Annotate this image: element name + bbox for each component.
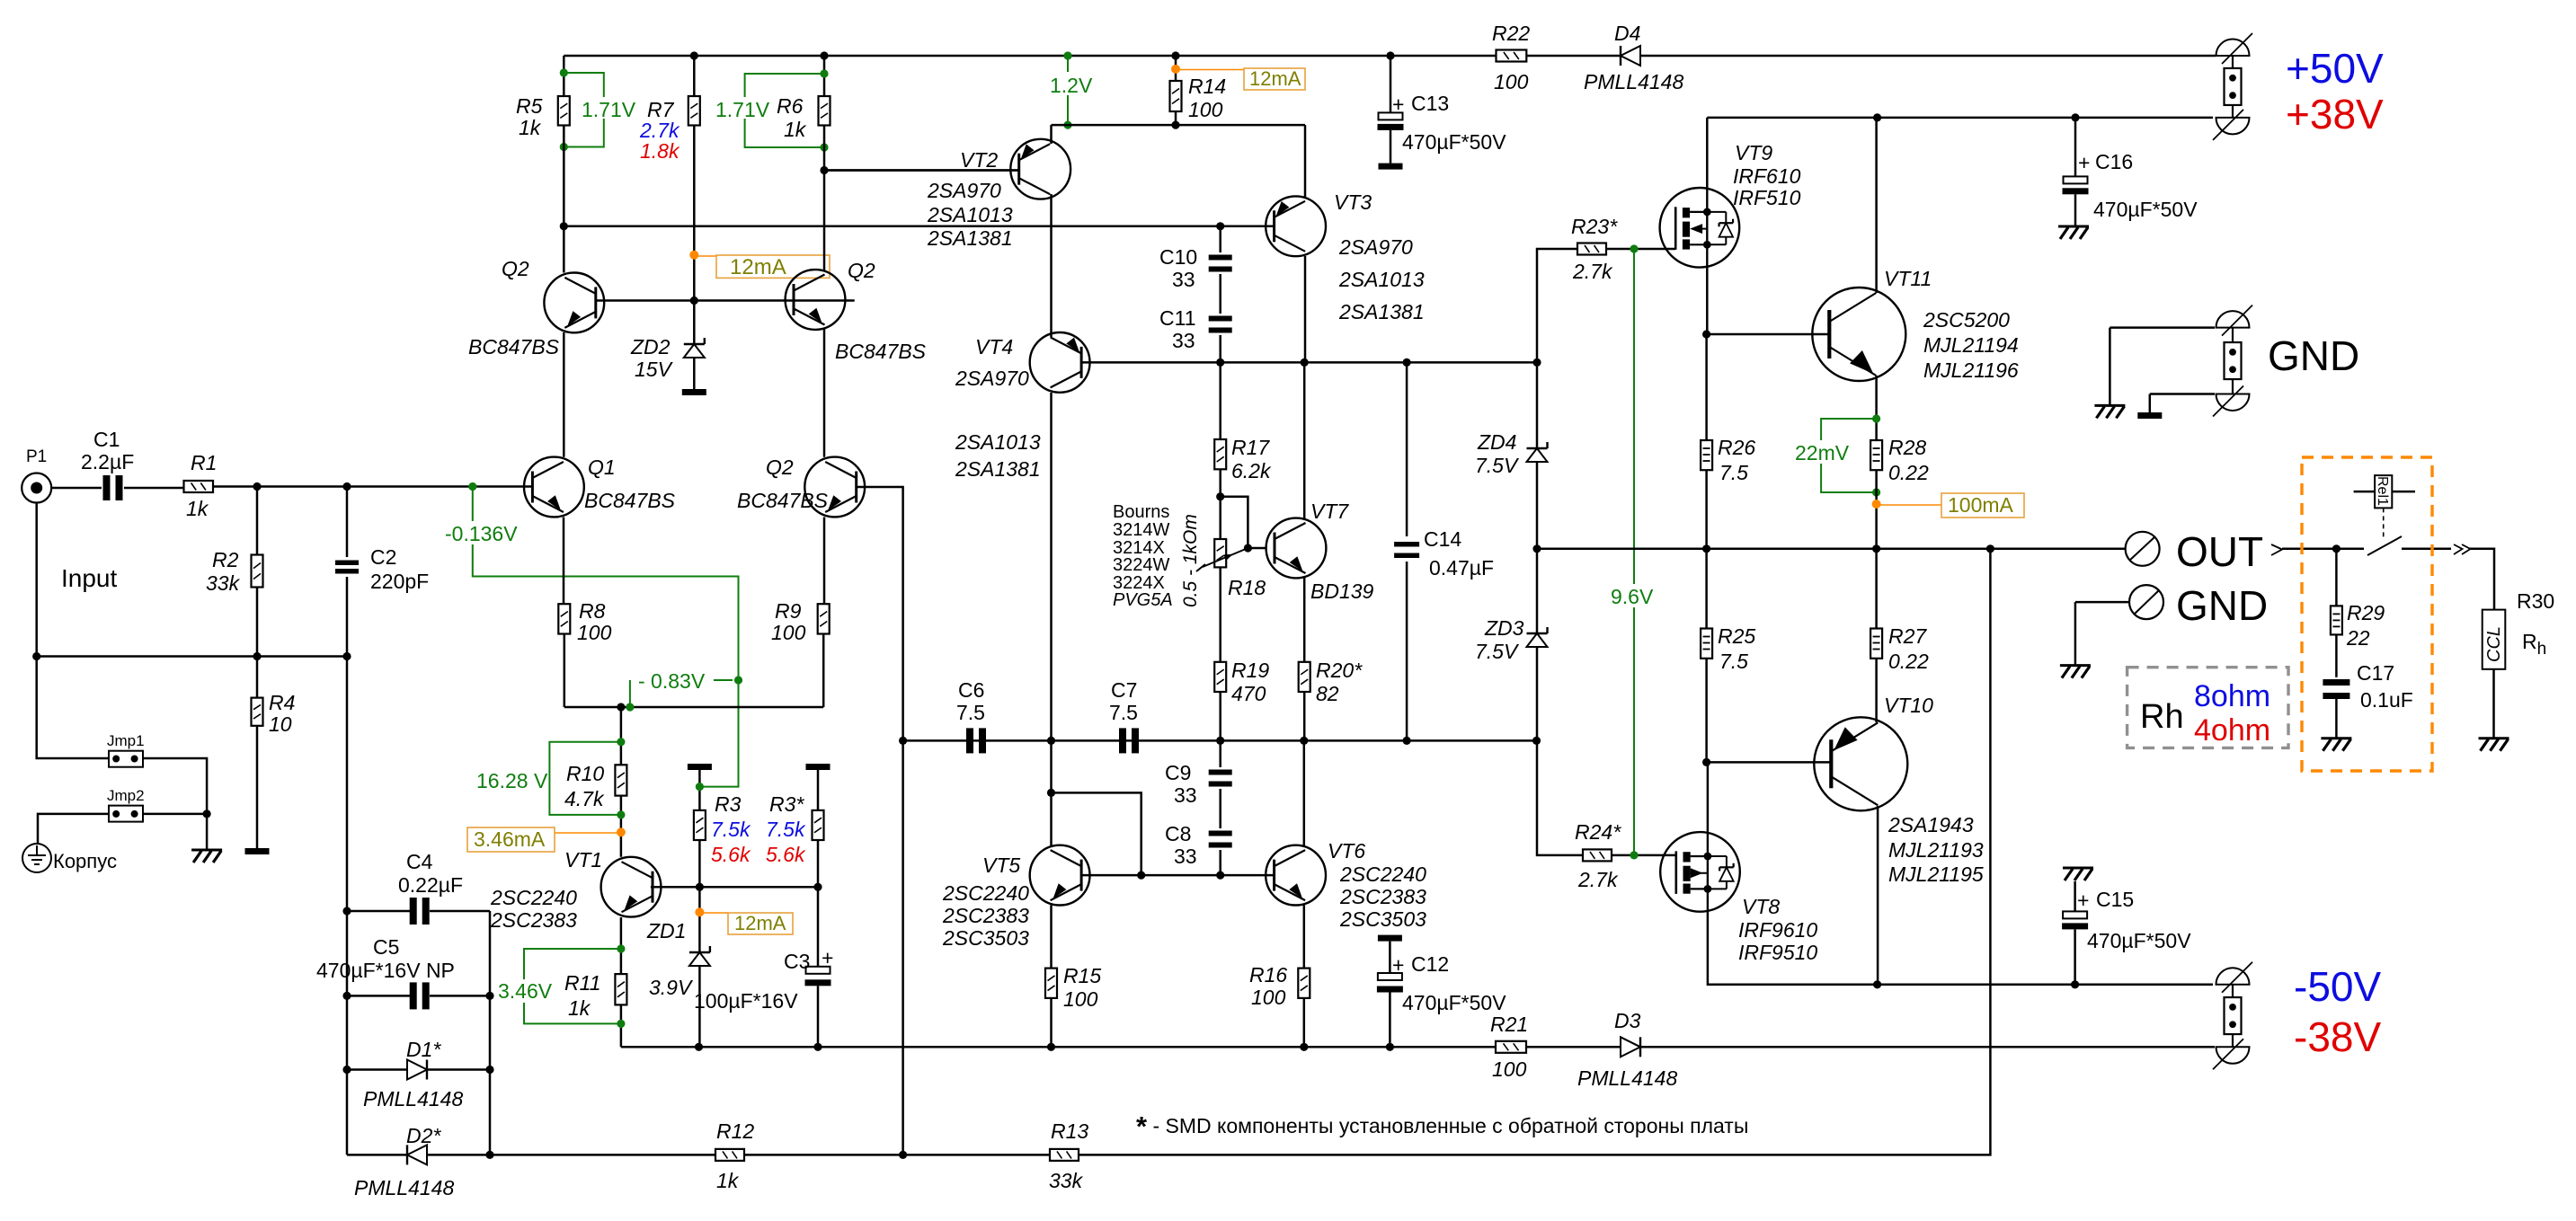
svg-text:100: 100	[1492, 1057, 1527, 1081]
capacitor C2	[346, 487, 349, 558]
transistor VT7	[1266, 518, 1327, 579]
svg-text:2SA970: 2SA970	[1338, 235, 1413, 259]
ground GND a	[2094, 404, 2125, 407]
svg-text:ZD2: ZD2	[630, 335, 671, 358]
svg-text:1k: 1k	[716, 1169, 740, 1192]
pad OUT	[2126, 532, 2160, 566]
wire VT7 collector up	[1303, 362, 1306, 519]
svg-text:2SA1943: 2SA1943	[1888, 813, 1974, 836]
svg-text:5.6k: 5.6k	[766, 843, 806, 866]
earth Корпус	[22, 844, 51, 872]
wire VT2 collector down	[1050, 194, 1053, 337]
svg-text:IRF9610: IRF9610	[1738, 918, 1817, 942]
wire +50V rail	[564, 55, 2216, 58]
ground C17	[2321, 737, 2351, 739]
svg-text:7.5V: 7.5V	[1475, 640, 1520, 663]
wire Jmp1 to corner	[143, 758, 207, 814]
svg-text:R1: R1	[191, 451, 217, 474]
svg-text:+50V: +50V	[2286, 45, 2384, 92]
svg-text:22: 22	[2346, 626, 2370, 650]
svg-text:1.2V: 1.2V	[1050, 74, 1093, 97]
jumper Jmp1	[109, 751, 143, 767]
resistor R2	[256, 487, 259, 555]
svg-text:R4: R4	[269, 691, 295, 714]
svg-text:Jmp1: Jmp1	[107, 732, 145, 749]
transistor VT10	[1814, 717, 1907, 810]
svg-text:10: 10	[269, 712, 292, 736]
node R11 top green	[617, 944, 625, 952]
svg-text:VT7: VT7	[1310, 500, 1349, 523]
wire VT9 source down	[1706, 267, 1709, 334]
current label 12mA ZD1	[699, 912, 728, 914]
svg-text:+: +	[2078, 151, 2090, 174]
svg-text:R11: R11	[564, 971, 601, 995]
zener ZD4	[1536, 362, 1539, 448]
current label 12mA R14	[1176, 69, 1244, 71]
svg-text:100: 100	[1063, 987, 1098, 1011]
wire P1 down	[35, 503, 38, 657]
svg-text:R19: R19	[1231, 659, 1269, 682]
wire Q2tl collector up	[563, 126, 565, 273]
svg-text:D1*: D1*	[406, 1038, 441, 1061]
connector P1 input jack	[22, 473, 51, 503]
capacitor C10	[1219, 226, 1221, 252]
svg-text:100: 100	[1251, 986, 1286, 1009]
wire R7 down	[693, 126, 696, 345]
svg-text:C15: C15	[2096, 888, 2134, 911]
svg-text:R2: R2	[212, 548, 239, 571]
svg-text:R8: R8	[579, 599, 606, 623]
resistor R22	[1497, 50, 1527, 62]
svg-text:VT5: VT5	[982, 854, 1020, 877]
transistor Q2 bottom-right	[804, 457, 865, 518]
resistor R3	[698, 770, 701, 810]
svg-text:C17: C17	[2357, 661, 2394, 685]
svg-text:R15: R15	[1063, 964, 1101, 987]
svg-text:VT4: VT4	[975, 335, 1013, 358]
wire VT4 base rail	[1081, 361, 1537, 364]
svg-text:+: +	[822, 946, 833, 969]
svg-text:Rh: Rh	[2140, 698, 2184, 736]
svg-text:7.5V: 7.5V	[1475, 454, 1520, 477]
resistor R24*	[1583, 849, 1612, 861]
svg-text:R23*: R23*	[1571, 215, 1618, 238]
node VT8-VT10	[1702, 758, 1710, 766]
transistor VT4 pnp mirrored	[1030, 332, 1090, 393]
svg-text:R26: R26	[1718, 436, 1755, 459]
svg-text:7.5: 7.5	[1109, 701, 1138, 724]
capacitor C15	[2074, 881, 2076, 911]
capacitor C7	[1119, 728, 1126, 753]
ground Jmp2	[191, 849, 222, 852]
resistor R16	[1298, 969, 1310, 998]
wire Q2br base to fb node	[857, 487, 903, 1155]
capacitor C16	[2074, 118, 2077, 177]
svg-text:IRF510: IRF510	[1733, 186, 1801, 209]
annotation -0.83V	[626, 703, 634, 711]
ground C15	[2063, 867, 2093, 870]
svg-text:2SC2240: 2SC2240	[1339, 863, 1426, 886]
resistor R7	[693, 56, 696, 96]
svg-text:VT8: VT8	[1742, 895, 1780, 918]
svg-text:VT6: VT6	[1328, 839, 1365, 863]
node 3.46mA	[617, 827, 626, 836]
annotation -0.136V	[473, 487, 739, 787]
svg-text:ZD3: ZD3	[1484, 616, 1524, 640]
svg-text:P1: P1	[26, 447, 47, 466]
svg-text:2SC2240: 2SC2240	[490, 886, 577, 909]
wire VT5-VT6 base rail	[1081, 874, 1274, 877]
wire input to C1	[51, 487, 102, 490]
svg-text:1.71V: 1.71V	[715, 98, 770, 121]
ground C13	[1379, 164, 1403, 170]
svg-text:C2: C2	[370, 545, 396, 569]
wire D3 to -50V	[1640, 1046, 2215, 1048]
svg-text:470µF*16V NP: 470µF*16V NP	[316, 959, 455, 982]
wire ZD3 to R24	[1537, 740, 1583, 855]
ground C16	[2058, 226, 2089, 228]
svg-text:C6: C6	[958, 678, 984, 702]
current label 100mA	[1877, 504, 1941, 506]
ground GND b	[2137, 412, 2162, 419]
wire VT9 drain up	[1706, 118, 1709, 189]
svg-text:2SC2383: 2SC2383	[490, 908, 577, 932]
svg-text:2SC2383: 2SC2383	[942, 904, 1029, 927]
wire R24 to VT8 gate	[1612, 854, 1675, 857]
svg-text:470: 470	[1231, 682, 1266, 705]
wire GND bottom	[2150, 393, 2215, 395]
svg-text:2SA970: 2SA970	[927, 179, 1001, 202]
svg-text:100µF*16V: 100µF*16V	[694, 989, 798, 1013]
node Q1 base green	[468, 482, 476, 491]
svg-text:33k: 33k	[206, 571, 241, 595]
resistor R25	[1701, 629, 1712, 659]
wire GND pad	[2075, 601, 2129, 604]
svg-text:2SA970: 2SA970	[955, 367, 1029, 390]
wire R23 to VT9 gate	[1606, 248, 1675, 251]
svg-text:-38V: -38V	[2294, 1013, 2381, 1060]
svg-text:R29: R29	[2347, 601, 2385, 624]
svg-text:VT2: VT2	[960, 148, 998, 172]
svg-text:R18: R18	[1228, 576, 1266, 599]
svg-text:GND: GND	[2268, 332, 2359, 379]
svg-text:2SC5200: 2SC5200	[1923, 308, 2010, 332]
wire VT5 collector loop	[1052, 792, 1141, 875]
resistor R12	[715, 1149, 744, 1161]
svg-text:33: 33	[1172, 268, 1195, 291]
transistor VT3 pnp	[1266, 196, 1326, 256]
wire R21 to D3	[1526, 1046, 1621, 1048]
svg-text:470µF*50V: 470µF*50V	[1402, 991, 1506, 1014]
svg-text:C13: C13	[1411, 92, 1449, 115]
wire D1 right down	[489, 1070, 492, 1155]
annotation 1.71V right	[745, 74, 824, 147]
svg-text:2.7k: 2.7k	[1572, 260, 1613, 283]
svg-text:BC847BS: BC847BS	[468, 335, 560, 358]
svg-text:C14: C14	[1424, 527, 1461, 551]
svg-text:100: 100	[577, 621, 612, 644]
wire VT11 emitter down	[1875, 376, 1878, 440]
svg-text:C7: C7	[1111, 678, 1137, 702]
diode D2	[347, 1154, 407, 1156]
wire VT3 collector down	[1304, 256, 1307, 362]
svg-text:BD139: BD139	[1310, 580, 1374, 603]
diode D3	[1621, 1037, 1640, 1057]
current label 3.46mA	[555, 832, 621, 834]
svg-text:Q2: Q2	[848, 259, 875, 282]
svg-text:R27: R27	[1888, 624, 1927, 648]
svg-text:* - SMD компоненты установленн: * - SMD компоненты установленные с обрат…	[1136, 1110, 1748, 1142]
svg-text:1k: 1k	[519, 116, 542, 139]
capacitor C6	[966, 728, 973, 753]
rail bar R3*	[806, 764, 831, 770]
resistor R4	[256, 657, 259, 698]
svg-text:MJL21195: MJL21195	[1888, 863, 1984, 886]
wire ladder right rail	[489, 911, 492, 1070]
resistor R9	[823, 518, 826, 605]
svg-text:R13: R13	[1051, 1119, 1088, 1143]
svg-text:C9: C9	[1165, 761, 1191, 784]
transistor Q1	[524, 457, 584, 518]
wire VT10 collector down	[1877, 806, 1879, 985]
connector +50V	[2216, 40, 2250, 56]
svg-text:16.28 V: 16.28 V	[476, 769, 548, 792]
svg-text:2.7k: 2.7k	[1577, 868, 1619, 891]
node R10 bottom green	[617, 810, 625, 818]
svg-text:C8: C8	[1165, 822, 1191, 845]
annotation 22mV	[1821, 419, 1877, 492]
svg-text:GND: GND	[2176, 582, 2268, 629]
capacitor C3	[817, 887, 820, 967]
svg-text:5.6k: 5.6k	[711, 843, 751, 866]
wire VT2 emitter up	[1050, 125, 1053, 144]
resistor R26	[1705, 334, 1708, 440]
svg-text:BC847BS: BC847BS	[835, 340, 927, 363]
jumper Jmp2	[109, 806, 143, 822]
wire VT5 emitter down	[1050, 906, 1053, 969]
wire VT11 base	[1707, 333, 1830, 336]
svg-text:-0.136V: -0.136V	[445, 522, 518, 545]
svg-text:1.8k: 1.8k	[640, 139, 680, 163]
wire R17 jog to VT7 base	[1221, 497, 1248, 548]
transistor VT11	[1812, 288, 1905, 381]
svg-text:Jmp2: Jmp2	[107, 787, 145, 804]
wire R10 column	[620, 707, 623, 765]
wire R12 to R13	[744, 1154, 1050, 1156]
mosfet VT9	[1660, 188, 1740, 268]
svg-text:470µF*50V: 470µF*50V	[2087, 929, 2191, 952]
svg-text:Input: Input	[61, 564, 117, 592]
svg-text:12mA: 12mA	[1249, 67, 1301, 90]
resistor R14	[1175, 56, 1177, 81]
svg-text:D4: D4	[1614, 22, 1640, 45]
ground R30	[2479, 737, 2509, 739]
svg-text:R17: R17	[1231, 436, 1270, 459]
svg-text:2SA1013: 2SA1013	[955, 430, 1041, 454]
wire GND top to ground	[2109, 328, 2111, 406]
svg-text:R16: R16	[1249, 963, 1287, 987]
capacitor C1	[103, 475, 111, 500]
ground R4	[245, 848, 270, 854]
node Q2 bases	[690, 296, 698, 305]
chevron double	[2454, 544, 2463, 554]
svg-text:BC847BS: BC847BS	[737, 489, 829, 512]
wire R1 to Q1 base	[213, 485, 532, 488]
svg-text:0.1uF: 0.1uF	[2360, 688, 2413, 712]
capacitor C11	[1219, 274, 1221, 314]
svg-text:BC847BS: BC847BS	[584, 489, 676, 512]
svg-text:15V: 15V	[635, 358, 674, 381]
svg-text:CCL: CCL	[2484, 626, 2504, 662]
svg-text:2SA1013: 2SA1013	[1338, 268, 1425, 291]
svg-text:VT9: VT9	[1735, 141, 1772, 164]
svg-text:33: 33	[1172, 329, 1195, 352]
svg-text:-50V: -50V	[2294, 963, 2381, 1010]
box Rh	[2127, 668, 2288, 748]
rail bar R3	[688, 764, 712, 770]
svg-text:R12: R12	[716, 1119, 754, 1143]
svg-text:7.5: 7.5	[1719, 461, 1748, 484]
svg-text:R3: R3	[715, 792, 742, 816]
svg-text:R9: R9	[775, 599, 802, 623]
mosfet VT8	[1660, 832, 1740, 912]
resistor R17	[1219, 362, 1221, 439]
transistor VT5	[1030, 845, 1090, 906]
wire VT6 emitter down	[1303, 906, 1306, 969]
wire ladder left rail	[346, 911, 349, 1155]
wire switch right	[2402, 548, 2451, 551]
resistor R30 CCL	[2483, 610, 2506, 669]
svg-text:R24*: R24*	[1575, 820, 1621, 844]
wire to R30	[2470, 549, 2494, 612]
wire VT3 emitter up	[1304, 125, 1307, 197]
wire GND conn top	[2110, 326, 2215, 329]
capacitor C14	[1406, 362, 1408, 536]
svg-text:100: 100	[771, 621, 806, 644]
potentiometer R18	[1214, 539, 1226, 567]
svg-text:1k: 1k	[568, 996, 591, 1020]
wire VT1 base	[651, 886, 818, 889]
node VT11 base	[1702, 330, 1710, 338]
wire VT10 base	[1707, 761, 1831, 764]
node R11 bottom green	[617, 1020, 625, 1028]
resistor R10	[615, 765, 626, 795]
svg-text:C12: C12	[1411, 952, 1449, 976]
svg-text:470µF*50V: 470µF*50V	[1402, 130, 1506, 154]
svg-text:0.47µF: 0.47µF	[1429, 556, 1494, 580]
svg-text:6.2k: 6.2k	[1231, 459, 1272, 482]
svg-text:Q1: Q1	[588, 456, 616, 479]
resistor R27	[1870, 629, 1882, 659]
resistor R19	[1214, 662, 1226, 692]
svg-text:7.5: 7.5	[956, 701, 985, 724]
svg-text:2.2µF: 2.2µF	[81, 450, 134, 473]
svg-text:100mA: 100mA	[1948, 493, 2014, 517]
svg-text:3214W: 3214W	[1113, 520, 1169, 540]
wire R8-R9 bottom	[564, 706, 823, 709]
wire VT6 collector up	[1303, 740, 1306, 845]
wire Q2 bases right	[694, 299, 854, 302]
svg-text:C16: C16	[2095, 150, 2133, 173]
capacitor C13	[1390, 56, 1392, 112]
wire OUT to switch	[2282, 548, 2364, 551]
svg-text:2SA1381: 2SA1381	[927, 226, 1013, 250]
resistor R1	[184, 481, 214, 492]
capacitor C5	[347, 995, 410, 997]
wire R23 branch	[1537, 249, 1577, 362]
node 12mA ZD1	[695, 907, 704, 916]
svg-text:0.22µF: 0.22µF	[398, 873, 463, 897]
capacitor C12	[1378, 935, 1402, 942]
svg-text:R28: R28	[1888, 436, 1926, 459]
resistor R5	[563, 56, 565, 96]
wire 1.2V rail drop	[1067, 56, 1069, 125]
svg-text:2SA1381: 2SA1381	[1338, 300, 1425, 323]
wire R6 down to Q2tr	[823, 126, 826, 271]
svg-text:33: 33	[1174, 783, 1197, 807]
chevron after OUT	[2271, 544, 2282, 555]
node R17-R18	[1216, 492, 1224, 500]
svg-text:0.22: 0.22	[1888, 650, 1929, 673]
node R5 annotation dots	[560, 68, 568, 76]
svg-text:3.46mA: 3.46mA	[474, 827, 546, 851]
current label 12mA top	[694, 255, 716, 257]
resistor R23*	[1577, 243, 1606, 255]
zener ZD2	[684, 343, 705, 345]
svg-text:1.71V: 1.71V	[582, 98, 636, 121]
resistor R15	[1045, 969, 1057, 998]
svg-text:470µF*50V: 470µF*50V	[2093, 198, 2198, 221]
diode D4	[1621, 46, 1640, 66]
resistor R13	[1050, 1149, 1079, 1161]
svg-text:MJL21193: MJL21193	[1888, 838, 1984, 862]
node R28 green top	[1872, 414, 1880, 422]
wire y252 to VT3 base	[564, 226, 1274, 228]
svg-text:3.46V: 3.46V	[498, 979, 553, 1003]
wire C1 to R1	[124, 487, 183, 490]
svg-text:2SC3503: 2SC3503	[942, 926, 1029, 950]
transistor VT2 pnp	[1010, 139, 1070, 199]
svg-text:8ohm: 8ohm	[2194, 679, 2270, 713]
wire 9.6V green	[1633, 249, 1635, 855]
switch blade	[2367, 536, 2402, 555]
svg-text:R22: R22	[1492, 22, 1530, 45]
svg-text:ZD4: ZD4	[1477, 430, 1516, 454]
wire VT1 emitter down	[620, 917, 623, 974]
svg-text:ZD1: ZD1	[646, 919, 686, 942]
svg-text:3.9V: 3.9V	[649, 976, 694, 999]
wire Q2tl emitter down	[563, 332, 565, 457]
svg-text:Rel1: Rel1	[2375, 476, 2390, 506]
wire VT2 base	[824, 169, 1019, 172]
svg-text:2SC2240: 2SC2240	[942, 881, 1029, 905]
svg-text:PMLL4148: PMLL4148	[354, 1176, 454, 1199]
svg-text:Q2: Q2	[502, 257, 529, 280]
svg-text:4.7k: 4.7k	[564, 787, 605, 810]
transistor Q2 top-right	[786, 270, 846, 330]
svg-text:R5: R5	[516, 94, 543, 118]
svg-text:IRF9510: IRF9510	[1738, 941, 1817, 964]
svg-text:C1: C1	[93, 428, 120, 451]
resistor R29	[2335, 549, 2338, 606]
box relay orange	[2302, 457, 2432, 771]
svg-text:VT10: VT10	[1884, 694, 1933, 717]
svg-text:2SC2383: 2SC2383	[1339, 885, 1426, 908]
svg-text:+: +	[1392, 953, 1404, 977]
svg-text:R14: R14	[1188, 75, 1226, 98]
node R28 green bottom	[1872, 488, 1880, 496]
svg-text:C11: C11	[1159, 306, 1196, 330]
